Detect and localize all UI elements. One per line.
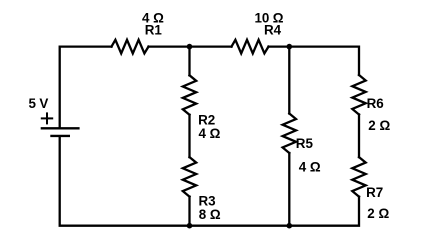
wire: R5 branch top stub	[288, 47, 290, 114]
node dot: top middle branch	[187, 44, 193, 50]
resistor R5	[283, 114, 296, 154]
svg-text:R7: R7	[366, 185, 383, 200]
battery V1 short plate	[50, 135, 70, 137]
svg-text:R6: R6	[367, 96, 384, 111]
wire: R1 to R4	[149, 45, 232, 47]
wire: R5 to bottom wire	[288, 153, 290, 226]
node dot: top R5 branch	[287, 44, 293, 50]
node dot: bottom R5 branch	[287, 223, 293, 229]
resistor R3	[183, 157, 196, 197]
svg-text:2 Ω: 2 Ω	[368, 118, 390, 133]
svg-text:R1: R1	[145, 22, 163, 37]
svg-text:R4: R4	[264, 22, 282, 37]
battery plus sign	[41, 112, 53, 124]
wire: R4 to top-right corner, down to R6	[269, 47, 360, 75]
resistor R1	[112, 40, 149, 54]
battery V1 long plate	[41, 127, 80, 129]
svg-text:4 Ω: 4 Ω	[199, 126, 221, 141]
resistor R6	[352, 75, 365, 115]
wire: R6 to R7	[358, 115, 360, 158]
node dot: bottom middle branch	[187, 223, 193, 229]
resistor R7	[352, 157, 365, 197]
resistor R4	[232, 40, 269, 54]
wire: R3 to bottom wire	[188, 197, 190, 226]
wire: R7 to bottom-right corner to battery bottom	[60, 137, 359, 226]
svg-text:2 Ω: 2 Ω	[367, 206, 389, 221]
svg-text:5 V: 5 V	[29, 96, 49, 111]
svg-text:4 Ω: 4 Ω	[299, 159, 321, 174]
svg-text:8 Ω: 8 Ω	[199, 207, 221, 222]
resistor R2	[183, 75, 196, 115]
wire: R2 to R3	[188, 115, 190, 157]
wire: middle branch top stub	[188, 47, 190, 76]
wire top-left: battery top to R1	[60, 47, 112, 128]
svg-text:R5: R5	[296, 136, 314, 151]
